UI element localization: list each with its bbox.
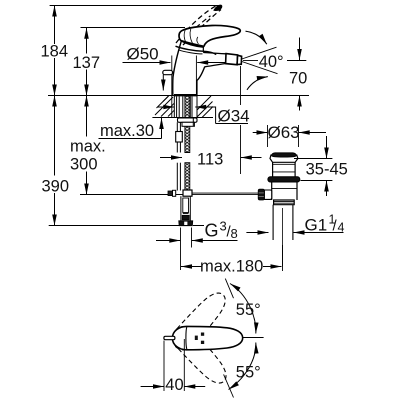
137 reference line <box>81 27 186 29</box>
radial line upper <box>225 279 233 299</box>
svg-text:4: 4 <box>338 221 345 235</box>
svg-text:G1: G1 <box>305 216 328 235</box>
waste flange (dark ring) <box>268 177 300 182</box>
handle pin <box>164 336 175 339</box>
deck top line <box>48 95 309 97</box>
dimension G3/8 <box>156 240 180 242</box>
svg-text:55°: 55° <box>236 301 261 319</box>
dimension G1 1/4 <box>246 232 268 234</box>
deck bottom line <box>152 117 213 119</box>
deck hole wall left <box>173 95 175 118</box>
waste neck <box>273 162 296 176</box>
faucet body left edge <box>173 41 182 96</box>
svg-text:300: 300 <box>70 156 98 174</box>
40 degree arc upper <box>246 31 267 44</box>
lever inner detail curves <box>184 29 198 44</box>
dashed swing ellipse upper <box>167 287 231 355</box>
side knob (knurled) <box>258 189 264 200</box>
40 degree arc lower <box>247 77 268 90</box>
aerator tip <box>237 55 242 64</box>
pop-up horizontal rod <box>192 192 258 194</box>
55 arc upper <box>230 284 256 334</box>
svg-text:Ø63: Ø63 <box>268 123 300 142</box>
waste centerline <box>282 208 284 266</box>
dashed swing ellipse lower <box>168 321 232 389</box>
Ø50 extension line left <box>171 56 173 118</box>
waste body <box>272 182 297 200</box>
svg-text:Ø50: Ø50 <box>127 44 159 63</box>
dimension 40 <box>163 341 165 392</box>
spout cone <box>204 53 227 54</box>
dimension 137 vertical line <box>86 28 88 96</box>
supply hose <box>180 196 182 221</box>
rod coupler <box>176 132 183 143</box>
svg-text:390: 390 <box>42 178 70 196</box>
lever base line <box>181 41 203 47</box>
spray fan line upper <box>242 47 277 59</box>
G3/8 extension lines <box>180 228 182 271</box>
55 arc lower <box>229 343 256 390</box>
label G3/8 <box>205 219 238 242</box>
handle dots <box>195 336 198 340</box>
supply tubes through deck <box>176 96 178 118</box>
hose nut G3/8 <box>179 221 193 226</box>
svg-text:8: 8 <box>231 226 238 241</box>
spray fan line lower <box>242 62 278 74</box>
aerator box <box>226 54 238 65</box>
dimension max300 vertical line <box>86 96 88 195</box>
390 bottom reference line <box>49 225 180 227</box>
deck hatching right <box>197 96 213 118</box>
dimension 35-45 <box>294 158 332 160</box>
svg-text:G: G <box>205 221 219 241</box>
short tube right <box>192 118 194 127</box>
Ø50 right arrow <box>197 62 227 64</box>
svg-text:max.: max. <box>70 138 106 156</box>
raised handle tip (solid) <box>214 5 222 11</box>
113 extension line (spout tip) <box>240 66 242 105</box>
svg-text:max.30: max.30 <box>100 122 154 140</box>
faucet lever handle (solid) <box>179 25 240 47</box>
threaded shank crosshatch <box>185 96 190 191</box>
pop-up knob arrow down <box>162 75 164 91</box>
svg-text:40°: 40° <box>259 53 284 71</box>
svg-text:137: 137 <box>73 54 101 72</box>
spray centerline <box>243 60 258 62</box>
svg-text:Ø34: Ø34 <box>218 107 250 126</box>
svg-text:184: 184 <box>41 43 69 61</box>
dimension 390 vertical line <box>54 96 56 226</box>
dimension 70 <box>299 38 301 111</box>
svg-text:max.180: max.180 <box>200 257 263 275</box>
pop-up rod clamp <box>183 190 192 196</box>
tailpipe <box>272 205 274 240</box>
handle top view (solid) <box>172 326 242 349</box>
label G1 1/4 <box>305 213 345 235</box>
faucet dashed raised handle <box>176 5 221 45</box>
faucet dome (cartridge cover) <box>176 46 217 54</box>
top reference line (handle raised top) <box>50 5 222 7</box>
washer below deck <box>178 118 198 122</box>
svg-text:55°: 55° <box>236 363 261 381</box>
radial line lower <box>224 374 234 397</box>
deck hatching left <box>155 96 174 117</box>
svg-text:40: 40 <box>165 376 183 394</box>
Ø34 arrow left at hole <box>158 106 175 108</box>
dimension 113 <box>160 157 182 159</box>
dimension Ø63 <box>267 125 269 147</box>
pop-up knob <box>163 70 173 74</box>
max300 bottom reference line <box>80 194 183 196</box>
svg-text:35-45: 35-45 <box>306 161 348 179</box>
svg-text:113: 113 <box>197 150 223 168</box>
pop-up rod below deck <box>176 122 178 152</box>
Ø50 extension line right <box>195 56 197 96</box>
faucet base bottom thick line <box>174 94 197 96</box>
dimension max.180 <box>282 245 284 271</box>
deck hole wall right <box>196 95 198 118</box>
svg-text:70: 70 <box>289 70 307 88</box>
waste cap dome <box>270 155 298 163</box>
coupling <box>274 200 295 205</box>
handle cap joint line <box>185 327 188 349</box>
faucet body right edge <box>197 67 205 96</box>
lever neck line <box>202 47 204 53</box>
dimension 184 vertical line <box>54 6 56 96</box>
centerline right of handle <box>243 337 264 339</box>
